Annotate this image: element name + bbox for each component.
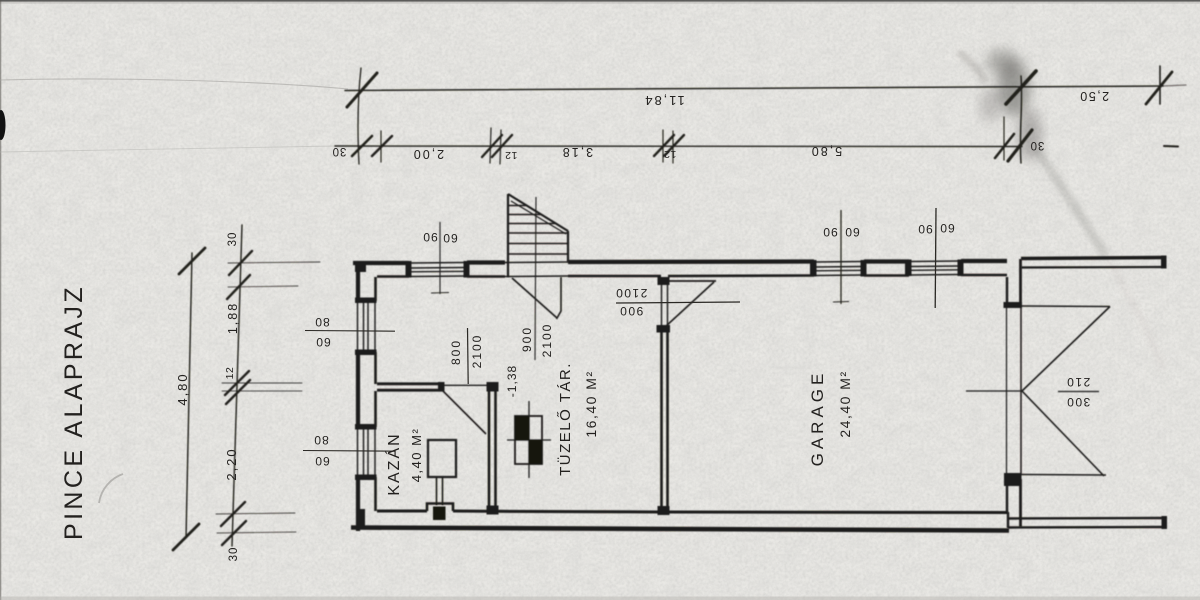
left wall inner edge: [374, 277, 377, 301]
faint pencil guide line left of dim line 2: [0, 146, 336, 152]
window LW2 in left wall: [355, 424, 377, 480]
garage door symbol lower diagonal: [1022, 391, 1104, 476]
right extension wall top: [1021, 258, 1164, 259]
entry door swing below stair: [512, 278, 557, 318]
tick D1 at x361: [347, 73, 377, 107]
dimension line D2 (30/2.00/12/3.18/12/5.80/30): [335, 145, 1178, 148]
svg-text:3,18: 3,18: [561, 145, 593, 159]
svg-text:60: 60: [314, 454, 329, 468]
tuzelo-garage door fraction bar: [616, 302, 740, 303]
tuzelo-garage door swing: [665, 282, 714, 327]
svg-text:2100: 2100: [615, 286, 648, 300]
kazan door lintel line: [443, 384, 490, 386]
svg-text:30: 30: [228, 547, 240, 562]
svg-text:30: 30: [1030, 139, 1045, 151]
garage door symbol upper diagonal: [1022, 307, 1110, 392]
garage door symbol bottom edge: [1021, 474, 1106, 477]
window W3 dim leader: [934, 208, 937, 308]
tuzelo-garage door leaf: [669, 280, 716, 282]
stair centre / fraction line: [535, 197, 536, 360]
svg-text:60: 60: [315, 335, 330, 349]
top-left corner block: [355, 261, 366, 272]
garage front wall bottom jamb: [1004, 473, 1022, 486]
svg-text:2100: 2100: [470, 334, 484, 369]
svg-text:2,00: 2,00: [412, 147, 444, 161]
floor level benchmark symbol: [507, 401, 551, 478]
svg-text:4,40 M²: 4,40 M²: [409, 428, 424, 483]
svg-text:2100: 2100: [540, 323, 554, 358]
tick 4,80 bottom: [173, 524, 199, 550]
scan edge top: [0, 0, 1200, 2]
svg-text:11,84: 11,84: [643, 93, 685, 108]
entry door jamb line: [557, 277, 562, 319]
svg-text:2,50: 2,50: [1079, 89, 1109, 103]
stair right stringer: [567, 231, 569, 262]
faint pencil guide line upper left: [0, 79, 348, 89]
svg-text:30: 30: [227, 232, 239, 247]
svg-text:80: 80: [313, 433, 328, 447]
dimension line D1 overall 11.84 + 2.50: [345, 85, 1186, 91]
svg-text:2,20: 2,20: [224, 447, 239, 480]
svg-text:900: 900: [619, 304, 644, 318]
inner ticks middle pair (12): [225, 371, 249, 395]
top wall outer edge: [353, 261, 409, 265]
pencil squiggle below title: [99, 474, 123, 503]
svg-text:24,40 M²: 24,40 M²: [837, 370, 853, 437]
extension line x361 D1-D2: [358, 68, 361, 164]
window W2 dim leader: [833, 210, 849, 304]
tick D1 at x1159: [1146, 66, 1172, 104]
svg-text:1,88: 1,88: [226, 302, 240, 334]
smudge streak down-right: [958, 52, 1163, 368]
svg-text:TÜZELŐ TÁR.: TÜZELŐ TÁR.: [556, 362, 574, 476]
interior wall B (tuzelo/garage): [657, 277, 671, 515]
window W1 dim leader: [431, 222, 449, 294]
window W1 in top wall: [406, 261, 470, 278]
window W3 in top wall: [905, 260, 964, 277]
stair inner diagonal handrail: [511, 201, 566, 234]
window W2 in top wall: [810, 260, 867, 277]
top wall inner edge: [377, 275, 409, 278]
svg-text:90: 90: [422, 230, 437, 244]
boiler rectangle in kazan: [428, 440, 456, 477]
inner ticks bottom pair (30): [221, 502, 245, 526]
stair left stringer: [507, 194, 509, 277]
svg-text:GARAGE: GARAGE: [808, 370, 827, 467]
scan edge left: [0, 0, 1, 600]
svg-text:60: 60: [844, 225, 859, 239]
left dimension line segments (inner): [232, 225, 242, 546]
window LW1 dim leader: [305, 330, 395, 333]
ink smudge top right: [980, 49, 1042, 161]
interior wall K (kazan top wall): [377, 382, 445, 392]
scan blob left edge: [0, 110, 6, 140]
bottom-left corner block: [356, 509, 365, 529]
garage front wall top jamb: [1006, 277, 1008, 302]
garage door plane lines: [1006, 308, 1008, 474]
stair top diagonal (outer): [508, 194, 568, 231]
window LW1 in left wall: [355, 298, 377, 356]
svg-text:300: 300: [1066, 395, 1091, 409]
kazan door dim line: [467, 328, 470, 384]
svg-text:12: 12: [664, 148, 677, 160]
window LW2 dim leader: [303, 450, 395, 453]
bottom wall inner edge: [377, 510, 427, 513]
left dimension line 4,80 (outer): [186, 253, 192, 538]
stair treads: [508, 205, 527, 207]
svg-text:16,40 M²: 16,40 M²: [583, 370, 599, 437]
svg-text:KAZÁN: KAZÁN: [384, 432, 403, 495]
svg-text:210: 210: [1066, 375, 1091, 389]
svg-text:30: 30: [332, 145, 347, 157]
right extension wall bottom: [1008, 517, 1164, 520]
svg-text:PINCE ALAPRAJZ: PINCE ALAPRAJZ: [60, 284, 88, 540]
boiler flue pipe: [436, 477, 438, 505]
interior wall A (kazan/tuzelo): [487, 382, 499, 515]
garage door symbol top edge: [1022, 305, 1110, 308]
svg-text:12: 12: [505, 149, 518, 161]
svg-text:900: 900: [520, 326, 534, 352]
svg-text:60: 60: [939, 221, 954, 235]
scan edge bottom: [0, 597, 1200, 600]
left wall outer edge: [356, 261, 360, 301]
svg-text:12: 12: [224, 367, 236, 380]
svg-text:5,80: 5,80: [810, 144, 842, 158]
kazan door swing: [442, 390, 486, 434]
svg-text:800: 800: [449, 339, 463, 365]
garage door label fraction bar: [1058, 391, 1099, 393]
svg-text:60: 60: [442, 231, 457, 245]
bottom wall outer edge: [351, 528, 1009, 531]
garage door centre line: [966, 390, 1022, 392]
svg-text:4,80: 4,80: [175, 372, 190, 405]
threshold line across stair opening: [505, 275, 568, 278]
top wall outer edge thin over stair opening: [505, 261, 568, 264]
tick D1 at x1019: [1006, 71, 1036, 104]
extension stubs toward building: [228, 262, 320, 263]
inner ticks top pair (30): [229, 251, 252, 275]
svg-text:90: 90: [917, 222, 932, 236]
svg-text:-1,38: -1,38: [505, 365, 519, 397]
svg-text:80: 80: [314, 315, 329, 329]
chimney recess in bottom wall: [427, 504, 453, 521]
svg-text:90: 90: [822, 225, 837, 239]
D2 ticks: [352, 136, 372, 156]
extension line x1019 D1-D2: [1020, 76, 1021, 163]
tick 4,80 top: [179, 248, 205, 274]
